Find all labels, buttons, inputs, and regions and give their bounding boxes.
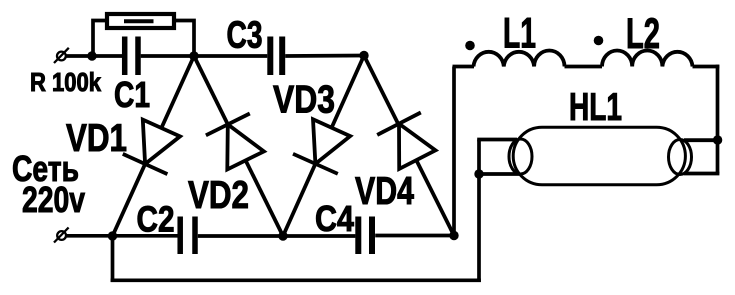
svg-text:VD1: VD1 [66,117,127,160]
diode VD3 [283,56,364,237]
wire lamp left top pin [477,138,517,142]
node D top junction 2 [359,51,368,60]
node lamp left pins junction [474,169,483,178]
wire node G up to L1 [452,67,456,236]
wire bottom terminal to C2 [66,234,178,238]
node F bottom junction middle [278,231,287,240]
wire R1 right lead [176,21,194,55]
wire L2 to right drop [693,65,720,69]
wire C3 to node D [285,54,364,58]
lamp right filament electrode [669,140,692,175]
terminal input top [54,48,69,63]
svg-text:HL1: HL1 [569,86,622,129]
wire node E down to bottom rail [111,236,115,282]
resistor R1 100k [107,14,174,28]
wire lamp right bottom pin [684,172,719,176]
node G bottom junction right [449,231,458,240]
capacitor C1 [125,37,138,76]
diode VD2 [194,56,283,236]
wire lamp left vertical [477,140,481,283]
wire lamp left bottom pin [477,172,520,176]
wire lamp right top pin [684,138,719,142]
polarity dot L2 [594,36,604,46]
capacitor C3 [270,37,282,76]
polarity dot L1 [465,41,475,51]
wire R1 left lead [93,21,105,55]
svg-text:220v: 220v [22,179,85,220]
capacitor C4 [358,217,372,255]
wire bottom rail [111,278,481,282]
wire L1 to L2 [565,65,603,69]
lamp HL1 tube [513,127,685,185]
svg-text:C2: C2 [137,199,175,240]
wire top terminal to C1 [66,54,122,58]
diode VD4 [364,56,454,236]
wire C4 to node G [375,234,454,238]
svg-text:VD2: VD2 [188,174,249,217]
svg-text:L2: L2 [626,10,660,58]
svg-text:VD3: VD3 [273,79,335,122]
wire C2 to C4 [198,234,356,238]
lamp left filament electrode [509,139,532,174]
node C top junction 1 [189,51,198,60]
capacitor C2 [180,217,195,255]
wire C1 to C3 [141,54,268,58]
svg-text:C1: C1 [114,74,150,115]
terminal input bottom [54,228,69,243]
node E bottom junction left [108,231,117,240]
inductor L1 [474,50,565,66]
node lamp right pin junction [713,135,722,144]
svg-text:R 100k: R 100k [30,67,101,97]
inductor L2 [602,50,693,66]
diode VD1 [113,56,195,236]
wire right vertical to lamp [716,65,720,174]
svg-text:C4: C4 [315,198,354,239]
svg-text:C3: C3 [227,15,263,57]
node B junction [87,51,96,60]
wire to L1 [453,65,475,69]
svg-text:VD4: VD4 [355,170,414,213]
svg-text:L1: L1 [503,10,536,58]
